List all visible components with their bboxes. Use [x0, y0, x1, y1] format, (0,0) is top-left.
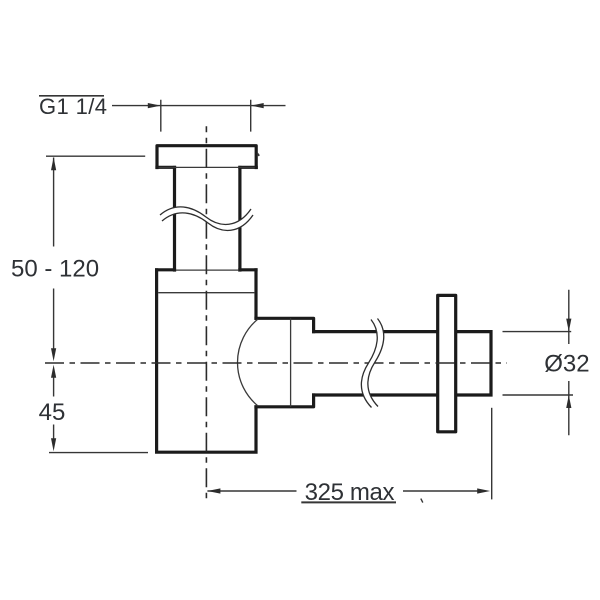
svg-text:G1 1/4: G1 1/4 [39, 94, 107, 119]
svg-text:325 max: 325 max [305, 479, 395, 506]
svg-text:Ø32: Ø32 [544, 351, 589, 378]
svg-text:50 - 120: 50 - 120 [11, 256, 99, 283]
svg-text:45: 45 [39, 399, 66, 426]
